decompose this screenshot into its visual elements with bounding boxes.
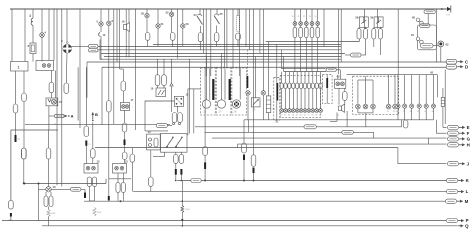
wire: [397, 9, 399, 75]
wire: [259, 9, 261, 54]
sensor wire: [418, 75, 420, 104]
wire: [200, 26, 202, 33]
svg-text:16: 16: [122, 20, 126, 24]
wire: [85, 146, 87, 164]
svg-text:60: 60: [412, 16, 416, 20]
svg-text:39: 39: [370, 16, 374, 20]
coil winding: [93, 208, 96, 217]
wire: [171, 9, 173, 12]
wire: [365, 39, 367, 55]
wire: [216, 9, 218, 14]
wire: [92, 122, 94, 148]
fuse: [162, 75, 167, 86]
connector D arrow: [457, 64, 468, 69]
connector H arrow: [459, 142, 470, 147]
shield mark: [229, 79, 231, 100]
contact: [336, 82, 340, 86]
wire: [244, 119, 434, 121]
fuse 8 box: [30, 43, 36, 54]
wire: [145, 130, 168, 132]
wire: [175, 175, 177, 181]
unit 2 box: [36, 61, 54, 71]
brush connector: [44, 196, 48, 207]
wire: [305, 18, 307, 22]
fuse: [155, 75, 160, 86]
injector wire: [312, 89, 314, 109]
connector: [84, 126, 89, 137]
wire: [243, 120, 245, 143]
wire: [358, 39, 360, 42]
lamp: [293, 22, 297, 26]
svg-text:F: F: [467, 131, 470, 136]
wire trunk: [104, 56, 341, 58]
wire bus D: [102, 66, 447, 68]
wire: [25, 123, 170, 125]
lamp: [299, 22, 303, 26]
wire: [397, 148, 399, 164]
fuse: [293, 27, 297, 37]
wire: [203, 9, 205, 54]
sensor wire: [397, 75, 399, 104]
ignition coil unit detail: [48, 99, 56, 104]
fusible link 13: [99, 33, 101, 37]
wire: [116, 9, 118, 62]
wire: [122, 173, 124, 183]
wire: [317, 38, 319, 72]
wire: [347, 74, 438, 76]
unit 26 dashed box: [201, 68, 216, 115]
junction: [38, 183, 40, 185]
shield mark: [212, 79, 214, 100]
wire: [440, 47, 442, 62]
injector: [303, 109, 307, 113]
wire: [337, 75, 339, 80]
horn 43: [339, 104, 345, 112]
wire: [32, 26, 34, 44]
wire: [345, 54, 351, 56]
wire: [311, 9, 313, 18]
unit 13 box: [113, 164, 127, 174]
fuse 64 inner: [441, 102, 444, 104]
wire: [224, 69, 226, 100]
wire: [72, 45, 89, 47]
wire: [262, 95, 264, 120]
sensor: [393, 104, 398, 109]
unit dashed box: [322, 75, 332, 104]
junction: [243, 180, 245, 182]
injector wire: [312, 72, 314, 83]
injector: [315, 109, 319, 113]
wire: [237, 40, 239, 47]
wire: [120, 68, 124, 70]
wire: [146, 9, 148, 13]
wire: [253, 9, 255, 155]
svg-text:13: 13: [125, 160, 129, 164]
svg-text:G: G: [467, 137, 471, 142]
wire: [180, 175, 182, 181]
unit 19 box: [156, 88, 166, 97]
sensor wire: [433, 108, 435, 120]
terminal mark: [10, 213, 12, 217]
horn 16: [124, 23, 130, 32]
connector 40: [351, 53, 362, 57]
injector wire: [292, 89, 294, 109]
wire: [24, 9, 26, 62]
connector C arrow: [457, 59, 469, 64]
wire: [188, 88, 201, 90]
wire: [346, 111, 348, 127]
connector: [91, 149, 96, 158]
connector H: [448, 143, 459, 147]
injector wire: [320, 89, 322, 109]
connector: [130, 154, 135, 162]
wire: [326, 75, 328, 104]
wire: [181, 213, 183, 226]
wire: [444, 70, 446, 125]
sensor: [356, 104, 361, 109]
wire: [436, 75, 438, 98]
switch contacts: [166, 137, 183, 148]
fuse: [299, 27, 303, 37]
svg-text:23: 23: [186, 22, 190, 26]
wire: [182, 9, 184, 24]
wire: [262, 9, 264, 91]
shield mark: [247, 76, 249, 88]
unit box: [147, 134, 161, 150]
connector Q arrow: [458, 223, 470, 228]
wire feed: [284, 71, 326, 73]
injector connector: [284, 83, 287, 89]
injector wire: [288, 72, 290, 83]
control unit box bottom: [24, 183, 106, 185]
fuse: [305, 27, 309, 37]
sensor: [424, 104, 428, 108]
injector wire: [292, 72, 294, 83]
wire: [372, 80, 374, 104]
terminal mark: [204, 162, 206, 169]
injector connector: [292, 83, 295, 89]
wire: [305, 25, 307, 27]
connector: [242, 143, 247, 153]
lamp: [310, 22, 314, 26]
coil 28 core: [234, 101, 239, 106]
connector: [121, 81, 126, 91]
connector: [203, 147, 208, 156]
fuse: [364, 29, 368, 39]
wire: [237, 9, 239, 16]
wire: [175, 163, 177, 169]
connector A: [64, 114, 73, 119]
connector: [71, 187, 82, 191]
fuse 8 inner: [31, 45, 35, 52]
unit 17 box: [121, 103, 130, 111]
unit 19 contacts: [158, 90, 161, 95]
connector G: [448, 137, 459, 141]
relay 9: [63, 42, 72, 53]
connector P: [447, 219, 458, 223]
lamp 5: [99, 22, 103, 26]
wire: [358, 27, 360, 28]
wire: [340, 9, 342, 62]
wire: [428, 138, 430, 144]
wire: [153, 156, 165, 158]
ground marker: [170, 83, 173, 86]
injector connector: [296, 83, 299, 89]
wire: [294, 25, 296, 27]
wire trunk: [98, 46, 341, 48]
terminal mark: [15, 135, 17, 142]
unit 27 dashed box: [216, 68, 231, 115]
connector: [420, 24, 430, 28]
wire: [48, 207, 50, 210]
injector wire: [308, 89, 310, 109]
wire: [171, 17, 173, 33]
wire: [53, 9, 55, 61]
wire trunk: [98, 49, 341, 51]
wire: [317, 9, 319, 18]
wire L: [133, 191, 446, 193]
wire: [49, 115, 55, 117]
wire: [135, 9, 137, 130]
wire: [23, 71, 25, 93]
svg-text:22: 22: [166, 11, 170, 15]
wire: [163, 86, 165, 88]
svg-text:42: 42: [337, 75, 341, 79]
wire: [23, 102, 25, 149]
sensor wire: [404, 75, 406, 104]
relay 38 contact: [363, 17, 365, 23]
wire: [157, 59, 159, 74]
svg-text:M: M: [465, 199, 469, 204]
wire: [15, 71, 17, 104]
wire: [131, 148, 133, 154]
wire: [365, 76, 367, 80]
wire: [189, 59, 191, 133]
wire: [150, 186, 152, 191]
wire H: [238, 143, 447, 145]
wire: [45, 192, 47, 196]
wire: [108, 112, 110, 196]
injector wire: [296, 89, 298, 109]
wire: [128, 9, 130, 57]
wire: [311, 38, 313, 72]
injector wire: [281, 89, 283, 109]
terminal mark: [243, 155, 245, 161]
injector connector: [288, 83, 291, 89]
wire: [276, 44, 278, 120]
unit 61 outline: [417, 25, 436, 50]
svg-text:3: 3: [29, 14, 31, 18]
shield mark: [276, 83, 278, 101]
wire: [153, 43, 341, 45]
wire: [206, 57, 208, 100]
wire: [131, 162, 133, 191]
injector wire: [320, 72, 322, 83]
wire: [41, 37, 43, 61]
wire P: [2, 220, 446, 222]
injector group dashed box: [280, 76, 320, 118]
sensor: [431, 104, 435, 108]
connector L arrow: [458, 189, 469, 194]
sensor: [386, 104, 391, 109]
fuse holder: [237, 16, 240, 32]
wire: [85, 67, 87, 126]
connector K: [447, 178, 458, 182]
wire: [66, 9, 68, 44]
connector D: [446, 64, 456, 69]
svg-text:42: 42: [430, 71, 434, 75]
connector: [122, 123, 127, 132]
motor 10: [46, 187, 51, 192]
battery positive terminal: [447, 6, 452, 17]
contact: [42, 64, 46, 68]
control unit box right: [105, 179, 107, 184]
wire: [15, 113, 17, 135]
injector connector: [280, 83, 283, 89]
wire: [377, 9, 379, 29]
wire: [193, 89, 195, 134]
wire: [61, 9, 63, 187]
wire feed: [280, 50, 282, 69]
connector J arrow: [459, 161, 470, 166]
injector wire: [285, 72, 287, 83]
contact: [86, 166, 90, 170]
wire: [205, 131, 374, 133]
wire: [330, 120, 337, 122]
lamp 22: [169, 12, 173, 16]
injector wire: [304, 89, 306, 109]
wire: [175, 152, 177, 154]
sensor: [417, 104, 421, 108]
junction: [204, 180, 206, 182]
wire: [373, 132, 375, 138]
wire: [268, 42, 270, 96]
svg-text:B: B: [95, 112, 98, 117]
wire: [232, 9, 234, 68]
wire feed: [281, 68, 325, 70]
wire: [204, 67, 206, 146]
wire: [427, 14, 429, 26]
wire: [124, 111, 126, 124]
lamp 20: [145, 13, 149, 17]
wire: [311, 25, 313, 27]
unit 44 dashed box: [353, 76, 399, 114]
wire: [176, 106, 178, 112]
wire: [237, 144, 239, 148]
wire: [100, 26, 102, 32]
wire: [56, 9, 58, 185]
connector: [304, 125, 316, 129]
wire F feed: [435, 120, 437, 133]
wire: [216, 42, 218, 47]
wire: [84, 189, 86, 192]
connector P arrow: [458, 218, 469, 223]
connector: [149, 177, 154, 186]
junction: [181, 180, 183, 182]
wire: [294, 9, 296, 18]
wire: [124, 145, 126, 152]
terminal mark: [180, 169, 182, 175]
fuse: [236, 33, 241, 40]
fuse 64: [441, 97, 444, 106]
wire: [48, 159, 50, 187]
wire: [113, 9, 115, 124]
resistor winding: [181, 206, 184, 213]
wire: [223, 9, 225, 68]
injector wire: [308, 72, 310, 83]
terminal mark: [84, 193, 86, 199]
injector connector: [319, 83, 322, 89]
wire: [266, 41, 360, 43]
svg-text:10: 10: [53, 185, 57, 189]
wire: [122, 69, 124, 81]
wire: [195, 126, 304, 128]
sensor wire: [397, 108, 399, 120]
wire: [144, 101, 146, 131]
connector G arrow: [459, 137, 471, 142]
resistor 30 detail: [266, 99, 271, 101]
wire: [247, 95, 249, 120]
sensor wire: [404, 108, 406, 120]
wire: [167, 125, 172, 127]
wire: [338, 88, 340, 104]
connector: [116, 183, 120, 193]
unit 42 box: [335, 79, 346, 88]
wire: [88, 187, 90, 201]
connector F: [448, 131, 459, 135]
wire: [365, 80, 367, 104]
wire: [81, 188, 85, 190]
wire: [48, 9, 50, 61]
wire: [11, 9, 13, 62]
injector wire: [281, 72, 283, 83]
lamp 23: [181, 24, 185, 28]
brush connector: [49, 196, 53, 207]
wire: [182, 28, 184, 46]
wire: [157, 86, 159, 88]
connector: [87, 177, 91, 187]
sensor wire: [425, 75, 427, 104]
wire: [86, 62, 88, 98]
fuse: [170, 33, 175, 41]
wire J: [398, 163, 447, 165]
fuse: [357, 29, 361, 39]
wire: [344, 100, 346, 104]
wire: [339, 70, 341, 79]
wire: [38, 184, 40, 190]
wire: [187, 89, 189, 135]
wire: [48, 130, 50, 148]
connector E: [448, 125, 459, 129]
terminal mark: [253, 168, 255, 174]
fuse: [145, 33, 150, 41]
wire: [204, 169, 206, 181]
wire: [379, 27, 381, 28]
connector pair: [89, 45, 99, 48]
coil winding: [47, 210, 50, 217]
wire: [294, 38, 296, 72]
junction: [441, 8, 443, 10]
wire: [364, 9, 366, 29]
connector 41: [326, 68, 336, 71]
svg-text:12: 12: [97, 160, 101, 164]
ignition switch box: [161, 134, 188, 153]
injector: [319, 109, 323, 113]
wire: [372, 109, 374, 113]
sensor: [371, 104, 376, 109]
sensor dashed box: [274, 78, 280, 120]
junction: [182, 200, 184, 202]
